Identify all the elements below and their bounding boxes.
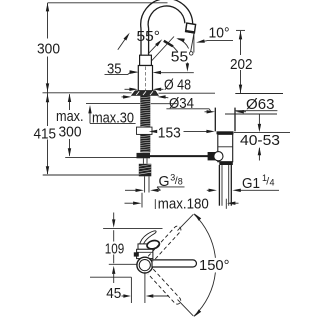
spout arc inner <box>148 6 185 29</box>
svg-text:202: 202 <box>230 56 253 73</box>
spout tube verticals <box>140 29 142 56</box>
tailpiece <box>218 165 220 206</box>
escutcheon hatched <box>132 91 159 96</box>
109 top reference line <box>103 228 162 230</box>
swivel circles <box>137 257 153 273</box>
svg-text:45: 45 <box>106 285 121 302</box>
deck edge front view <box>90 276 131 278</box>
dashed spout rotated down <box>148 269 182 305</box>
45 dimension arrows <box>122 295 125 297</box>
arrows dia48 at body <box>130 71 138 74</box>
front view lever curl <box>139 231 156 246</box>
front view body <box>137 249 153 258</box>
svg-text:max.180: max.180 <box>158 196 209 213</box>
drain flange dark band <box>217 131 234 134</box>
reference line max300 bottom <box>65 156 137 158</box>
body centerline <box>145 67 147 91</box>
svg-text:153: 153 <box>158 124 181 141</box>
max180 arrows and extensions <box>141 193 143 208</box>
cross fitting <box>137 153 151 158</box>
lever axis thin line <box>151 37 175 63</box>
deck bottom line <box>86 102 140 104</box>
threaded shank with fine texture <box>140 96 150 127</box>
svg-text:max.: max. <box>56 108 84 125</box>
ball joint nut and ball <box>208 152 217 160</box>
hose end lines <box>144 176 146 192</box>
svg-text:4: 4 <box>270 177 275 187</box>
G3/8 arrows at hose <box>125 189 137 191</box>
hose connector block <box>139 164 152 177</box>
G1 1/4 arrows at tailpiece <box>207 189 210 191</box>
front view knob <box>146 239 160 250</box>
dimension line max300 vertical <box>69 94 71 110</box>
lever stroke <box>164 41 173 47</box>
deck top line <box>43 92 132 94</box>
svg-text:G1: G1 <box>242 175 260 192</box>
spout bar top view <box>152 260 196 267</box>
horizontal pop-up rod <box>150 155 209 157</box>
svg-text:300: 300 <box>59 124 82 141</box>
svg-text:55°: 55° <box>171 48 195 65</box>
svg-text:40-53: 40-53 <box>240 132 280 149</box>
reference line 415 bottom <box>43 174 139 176</box>
front view cartridge cap <box>138 244 152 249</box>
150deg arc <box>194 214 216 258</box>
svg-text:109: 109 <box>105 240 125 257</box>
bottom nut dark band <box>219 162 233 165</box>
extension lines to arc <box>178 214 194 230</box>
faucet neck <box>140 55 152 65</box>
spout arc outer <box>141 0 193 29</box>
water reference lines for 10deg <box>193 33 195 53</box>
dimension line 300-415 vertical <box>47 3 49 39</box>
down arrow of second 55deg <box>186 63 188 66</box>
svg-text:Ø 48: Ø 48 <box>164 76 191 93</box>
top extension line <box>48 2 168 4</box>
dashed spout rotated up <box>148 225 182 261</box>
40-53 dimension reference lines <box>225 113 277 115</box>
svg-text:300: 300 <box>37 41 60 58</box>
left angle arm <box>118 35 128 50</box>
arc arm of second 55deg <box>178 39 189 49</box>
centre extension below circle <box>144 274 146 304</box>
mounting nut on shank <box>137 127 153 134</box>
faucet body <box>138 66 152 91</box>
arrows at body bottom <box>125 88 131 90</box>
drain body <box>218 134 233 161</box>
svg-text:10°: 10° <box>209 25 230 42</box>
109-45 dimension vertical <box>113 213 115 221</box>
aerator <box>186 23 196 33</box>
centre line left of circle <box>109 263 137 265</box>
drain pipe <box>214 108 216 132</box>
svg-text:8: 8 <box>178 176 183 186</box>
arrows at escutcheon <box>122 96 125 98</box>
svg-text:150°: 150° <box>199 257 230 274</box>
svg-text:55°: 55° <box>137 28 161 45</box>
svg-text:415: 415 <box>34 126 57 143</box>
right angle arm <box>148 42 160 54</box>
